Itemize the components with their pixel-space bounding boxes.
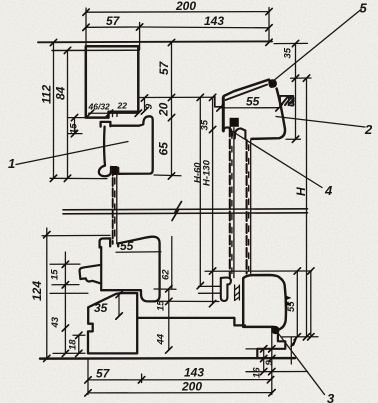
frame head box extension line xyxy=(52,49,138,51)
ext lines left chains xyxy=(50,264,88,353)
lip box with hatch right xyxy=(280,96,293,106)
short dim line x291 bottom right xyxy=(290,337,292,364)
svg-text:143: 143 xyxy=(184,366,204,380)
dim 55 bottom sash xyxy=(116,251,161,254)
sill ledge right xyxy=(137,318,245,326)
leader 5 xyxy=(273,10,362,82)
glass top (inner pane upper seat) xyxy=(113,168,117,244)
svg-text:44: 44 xyxy=(156,333,167,345)
svg-text:15: 15 xyxy=(50,269,61,280)
dim H-130 xyxy=(212,97,214,303)
svg-text:9: 9 xyxy=(144,103,155,110)
svg-text:57: 57 xyxy=(157,60,171,75)
svg-text:35: 35 xyxy=(283,47,294,58)
dim line right x310.8 xyxy=(310,271,312,337)
leader 2 xyxy=(276,117,365,128)
extension line y97.5 xyxy=(139,96,216,98)
dim 46/32 and 22 xyxy=(89,112,139,114)
frame head box xyxy=(86,46,139,117)
svg-text:35: 35 xyxy=(200,119,211,130)
ext y78 xyxy=(291,77,312,79)
dim 62 right xyxy=(295,78,297,139)
dim 84 left xyxy=(67,50,69,178)
frame head groove detail xyxy=(113,112,118,117)
bottom outer sash hook piece xyxy=(221,278,231,302)
dim 15 left small xyxy=(68,118,85,134)
extension 57/143 xyxy=(139,23,141,51)
dim 124 xyxy=(46,228,48,358)
sash right edge nubs xyxy=(285,296,291,306)
arrow toward tick x297 xyxy=(291,338,297,346)
extension bottom of left chain xyxy=(50,177,107,179)
hook lip lines xyxy=(199,286,221,293)
svg-text:Н-130: Н-130 xyxy=(202,159,213,186)
svg-text:200: 200 xyxy=(175,0,196,13)
svg-text:84: 84 xyxy=(54,86,68,100)
svg-text:2: 2 xyxy=(364,122,373,137)
ext y139 xyxy=(286,138,301,140)
sash corner blob (callout 3 target) xyxy=(271,326,279,334)
inner sash left edge xyxy=(100,247,102,290)
bottom dims 57 143 200 xyxy=(88,327,272,395)
svg-text:200: 200 xyxy=(181,380,202,394)
inner bottom sash body xyxy=(101,237,159,302)
svg-text:35: 35 xyxy=(94,301,108,315)
inner top sash xyxy=(99,116,153,176)
svg-text:Н: Н xyxy=(294,187,308,196)
svg-text:43: 43 xyxy=(50,316,61,328)
wall line top xyxy=(38,40,272,43)
long sill bottom line xyxy=(40,357,295,360)
glass hatch bar in bottom sash xyxy=(235,285,240,301)
small dims 9 and 16 right bottom xyxy=(246,349,280,372)
outer glass pane B xyxy=(247,140,251,273)
svg-text:15: 15 xyxy=(69,123,80,134)
svg-text:20: 20 xyxy=(157,102,171,117)
dim 18 xyxy=(78,335,80,353)
svg-text:5: 5 xyxy=(360,1,368,16)
tick marks (45 deg slashes) xyxy=(44,8,314,396)
dim 15 mid xyxy=(154,289,176,302)
extension at sash bottom right xyxy=(154,174,181,177)
bottom outer sash body xyxy=(243,275,286,330)
svg-text:112: 112 xyxy=(40,85,54,104)
svg-text:55: 55 xyxy=(120,239,134,253)
svg-text:65: 65 xyxy=(157,142,171,156)
outer sash corner blob (callout 5 target) xyxy=(268,79,277,88)
chain x65.4 xyxy=(64,252,66,353)
svg-text:57: 57 xyxy=(106,14,121,28)
dim 55 bottom right xyxy=(296,271,298,337)
break zigzag xyxy=(172,202,182,221)
dim chain right of box: 57 / 20 / 65 xyxy=(171,43,173,177)
svg-text:62: 62 xyxy=(287,96,298,107)
dim 44 xyxy=(168,301,170,350)
svg-text:18: 18 xyxy=(68,339,79,350)
ext y336.8 xyxy=(282,336,318,338)
inner pane dark top seat xyxy=(112,166,118,175)
outer glass pane A xyxy=(230,128,234,278)
right chain: ext y43.5 xyxy=(274,42,308,44)
ext y271 bottom right xyxy=(205,270,312,272)
svg-text:1: 1 xyxy=(8,156,15,171)
break lines xyxy=(63,209,308,214)
dim 55 top sash xyxy=(220,107,279,109)
sash drip wedge xyxy=(80,265,102,284)
dim 143 top xyxy=(140,26,269,29)
svg-text:46/32: 46/32 xyxy=(88,102,111,112)
leader 4 xyxy=(233,132,323,188)
dim 35 right top xyxy=(295,44,297,79)
dim H xyxy=(306,78,308,337)
svg-text:57: 57 xyxy=(96,367,111,381)
ext y301.3 xyxy=(157,300,219,302)
svg-text:62: 62 xyxy=(161,269,172,280)
leader 3 xyxy=(277,331,325,395)
svg-text:16: 16 xyxy=(252,367,263,378)
dark glazing gap blob xyxy=(230,118,239,127)
svg-text:124: 124 xyxy=(30,281,44,301)
line y371.6 xyxy=(246,371,308,373)
dim 112 left xyxy=(53,43,55,179)
dim 9 small xyxy=(144,98,146,111)
inner bottom sash lip xyxy=(100,237,160,302)
svg-text:4: 4 xyxy=(324,183,333,198)
leader 1 xyxy=(16,142,128,165)
ext y235 xyxy=(42,234,110,236)
svg-text:55: 55 xyxy=(246,95,260,109)
outer top sash xyxy=(215,80,285,139)
dim H-60 xyxy=(199,97,201,285)
dim 200 top xyxy=(86,8,269,50)
svg-text:143: 143 xyxy=(204,14,224,28)
drip piece under outer sash xyxy=(257,334,285,358)
svg-text:22: 22 xyxy=(117,101,128,111)
dim 57 top xyxy=(86,26,140,28)
sill frame piece xyxy=(88,293,245,353)
svg-text:3: 3 xyxy=(327,391,335,403)
